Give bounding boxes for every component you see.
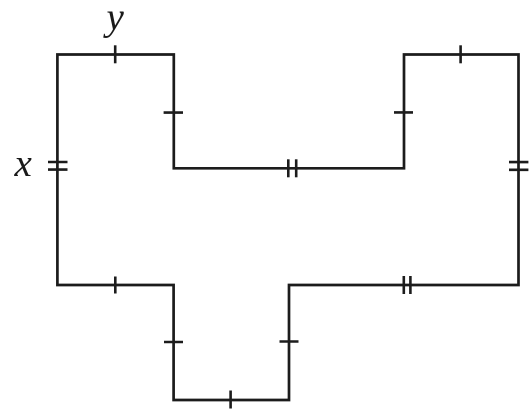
- tick bottom-left horizontal: [114, 277, 117, 294]
- double tick bottom-right horizontal: [402, 276, 405, 294]
- tick top-left edge: [114, 45, 117, 63]
- svg-text:y: y: [103, 0, 125, 39]
- tick bottom-tab left vertical: [164, 341, 183, 344]
- double tick middle horizontal: [287, 159, 290, 177]
- tick top-right edge: [459, 45, 462, 63]
- svg-text:x: x: [14, 142, 33, 185]
- tick bottom edge: [229, 391, 232, 409]
- polygon outline: [57, 55, 518, 401]
- double tick right edge: [509, 161, 528, 164]
- tick inner-right vertical: [394, 111, 413, 114]
- tick inner-left vertical: [164, 111, 183, 114]
- double tick left edge: [48, 161, 68, 164]
- tick bottom-tab right vertical: [280, 340, 299, 343]
